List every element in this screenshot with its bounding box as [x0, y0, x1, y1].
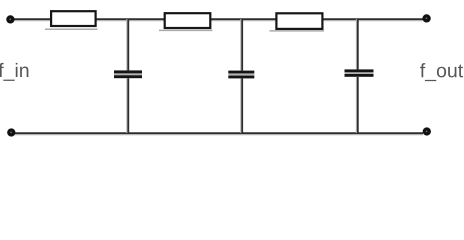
resistor R1 — [45, 11, 98, 29]
label f_out — [420, 63, 463, 81]
wire bottom rail (ground return) — [15, 132, 423, 134]
port terminal bottom-right — [423, 127, 431, 135]
port terminal bottom-left — [7, 128, 15, 136]
capacitor C3 — [345, 19, 374, 133]
resistor R2 — [159, 13, 213, 30]
wire top rail (f_in node to f_out node) — [14, 18, 423, 20]
label f_in — [0, 63, 28, 81]
port terminal f_out top-right — [422, 14, 430, 22]
wire top rail shadow — [14, 20, 423, 22]
resistor R3 — [270, 13, 325, 31]
port terminal f_in top-left — [6, 15, 14, 23]
capacitor C1 — [114, 19, 142, 133]
wire bottom rail shadow — [15, 134, 423, 136]
capacitor C2 — [228, 19, 254, 133]
